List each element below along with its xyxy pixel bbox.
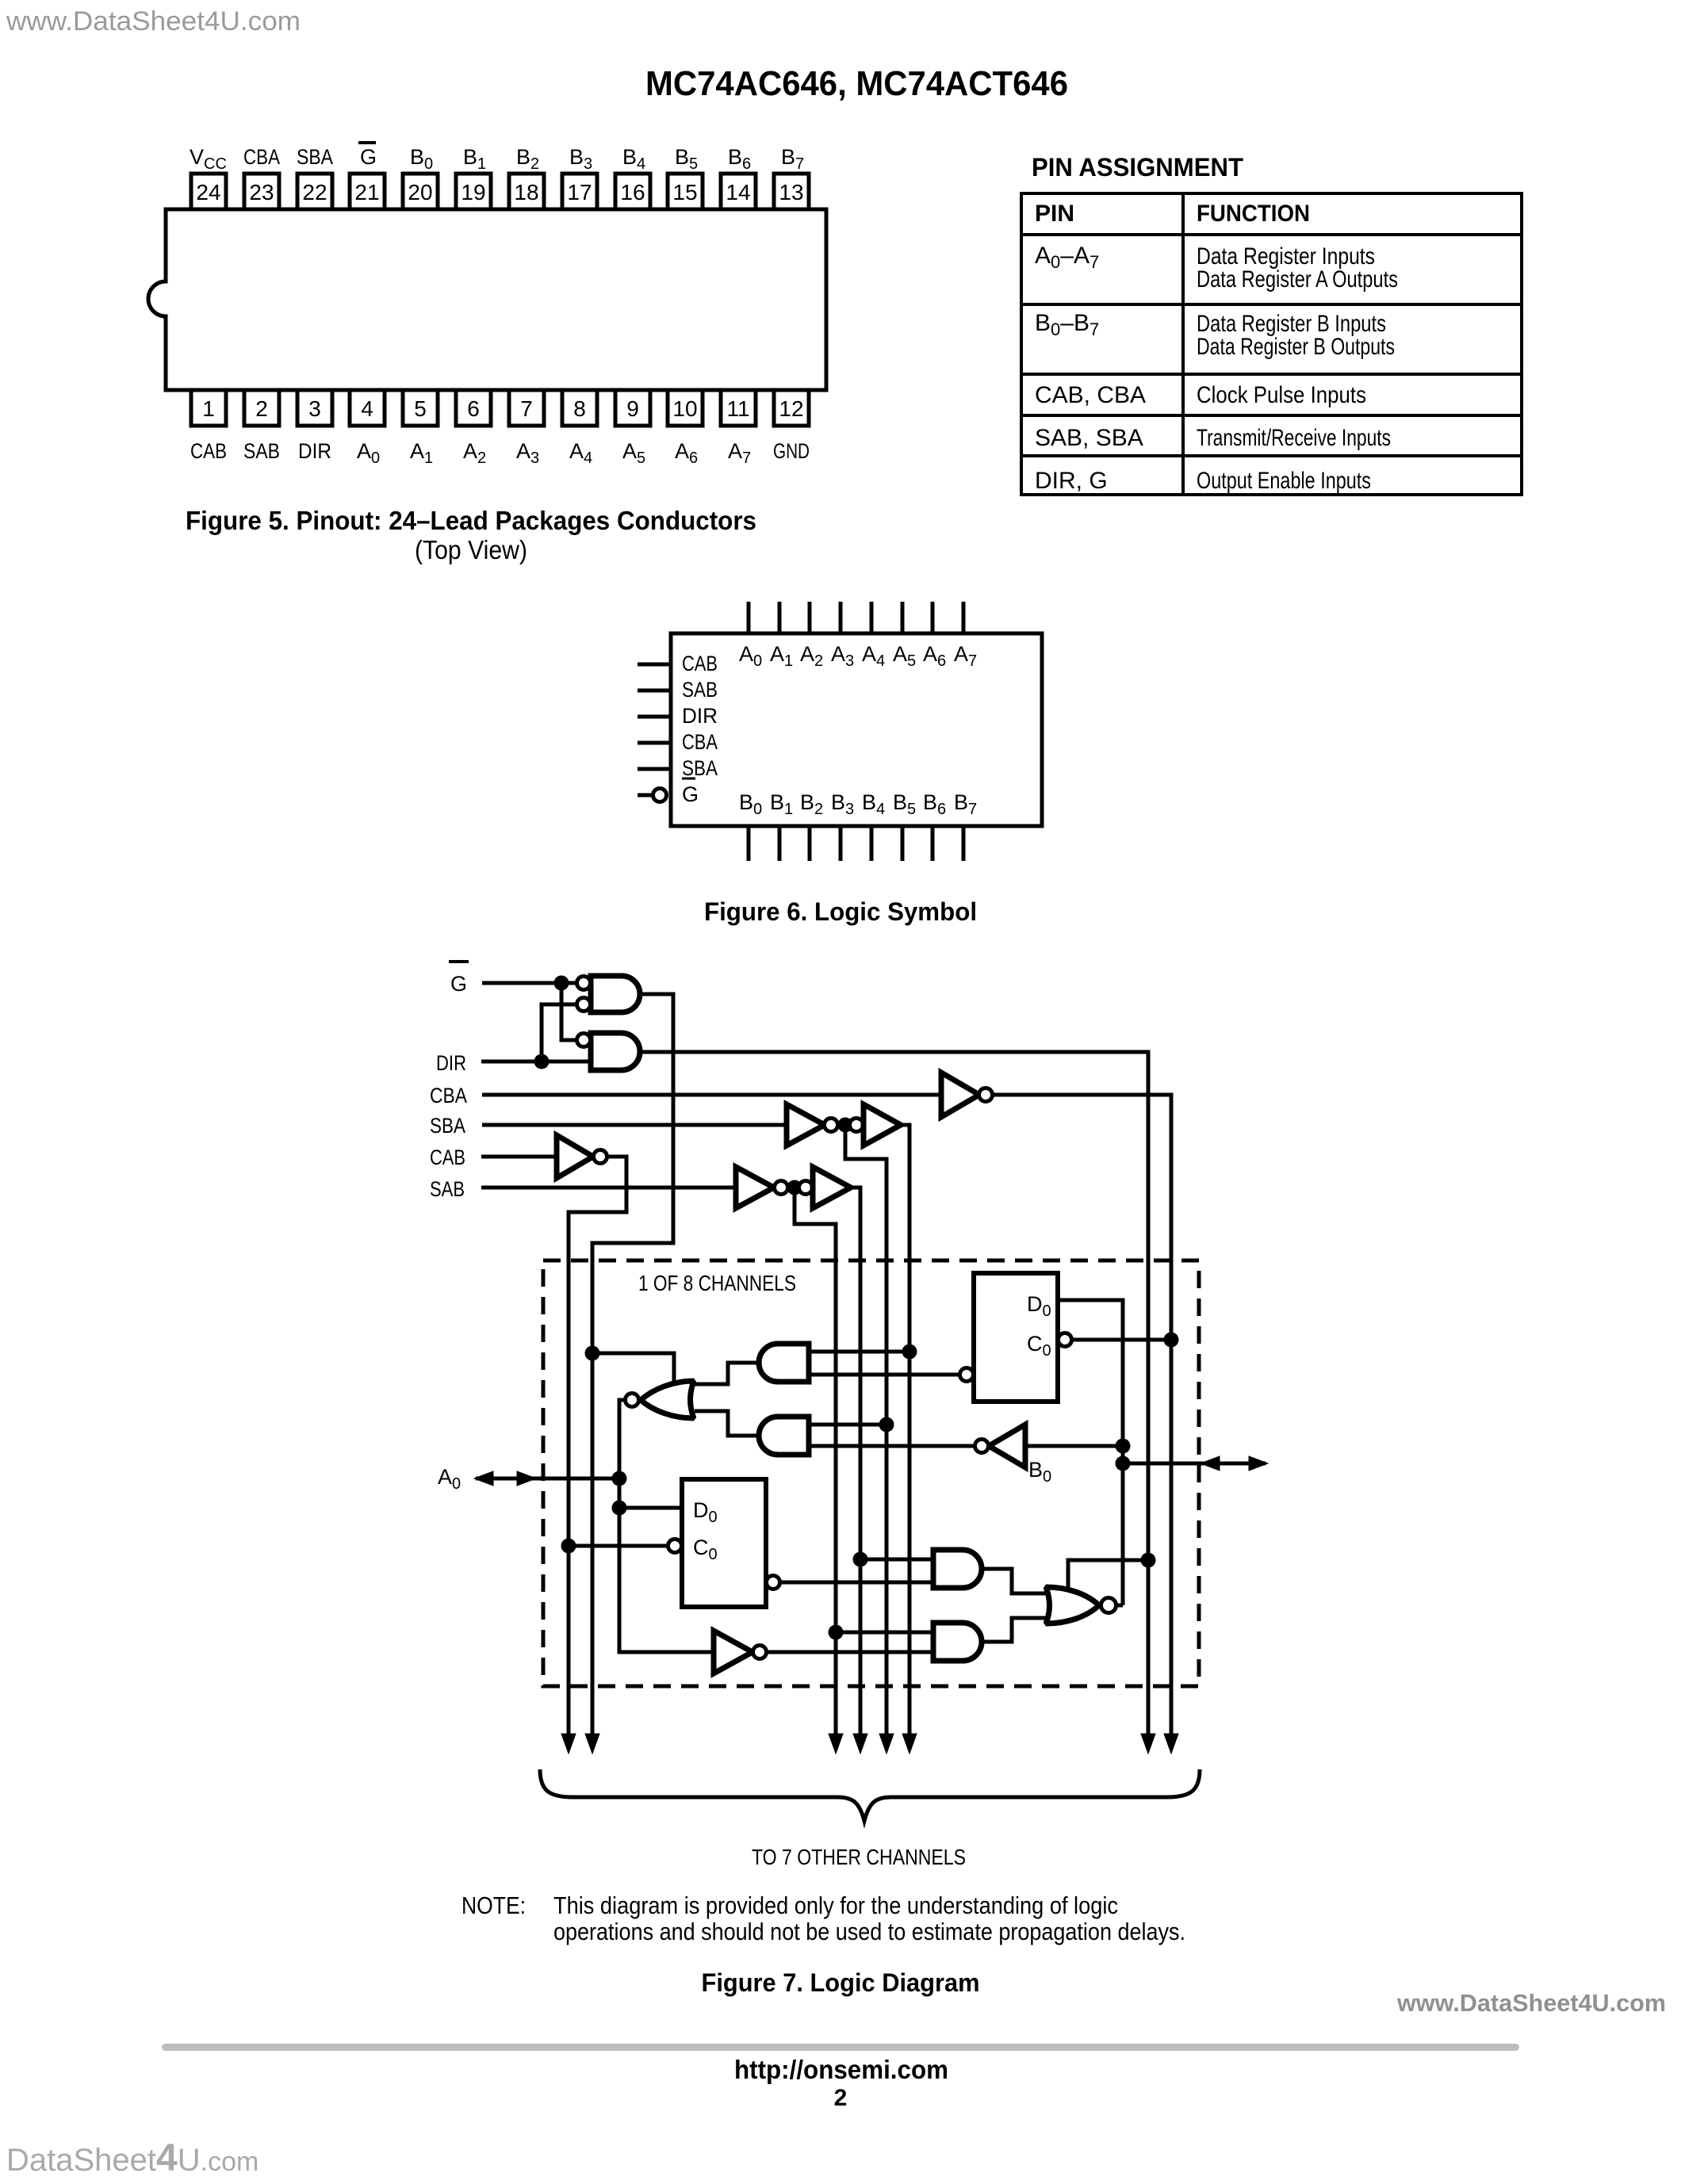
junction A0 line — [612, 1471, 627, 1486]
svg-text:20: 20 — [408, 180, 432, 205]
junction DIR line — [534, 1054, 550, 1069]
wire A0 to register D input — [619, 1506, 682, 1510]
pin A1 top lead — [778, 602, 782, 633]
svg-text:This diagram is provided only: This diagram is provided only for the un… — [553, 1891, 1118, 1919]
wire U12 bottom input from B0 inverter — [809, 1444, 975, 1448]
wire U13 output to NOR U17 — [982, 1569, 1048, 1593]
svg-text:7: 7 — [520, 396, 533, 421]
junction on SAB inverted-inverted line — [853, 1552, 868, 1567]
pin A2 top lead — [808, 602, 812, 633]
wire U4 output down to channel — [993, 1095, 1171, 1740]
arrowhead channel output x=1054 — [829, 1734, 843, 1754]
wire U11 top input from SBA tap — [809, 1350, 910, 1354]
svg-text:9: 9 — [626, 396, 639, 421]
svg-text:www.DataSheet4U.com: www.DataSheet4U.com — [1396, 1989, 1666, 2017]
svg-text:8: 8 — [573, 396, 586, 421]
svg-text:SBA: SBA — [682, 756, 718, 780]
svg-text:DIR: DIR — [436, 1051, 466, 1075]
pin CBA left lead — [638, 741, 671, 745]
wire U14 output to NOR U17 — [982, 1618, 1048, 1642]
inverter U5B (SBA second) — [850, 1119, 864, 1132]
wire U14 top input from SAB tap — [836, 1631, 933, 1635]
pin 20 box — [403, 174, 438, 209]
svg-text:11: 11 — [726, 396, 749, 421]
channel boundary (dashed box) — [543, 1260, 1199, 1686]
pin B6 bottom lead — [931, 826, 935, 861]
pin B0 bottom lead — [747, 826, 751, 861]
wire U7B output down to channel — [851, 1188, 860, 1740]
pin B5 bottom lead — [901, 826, 905, 861]
svg-text:Figure 7. Logic Diagram: Figure 7. Logic Diagram — [702, 1968, 980, 1997]
pin 4 box — [350, 390, 385, 426]
pin A7 top lead — [962, 602, 966, 633]
wire U15 clock from CBA tap — [1072, 1338, 1171, 1342]
svg-text:6: 6 — [467, 396, 480, 421]
pin A4 top lead — [870, 602, 874, 633]
wire U3 output to channel (B-side enable) — [640, 1052, 1148, 1740]
arrowhead channel output x=1147 — [902, 1734, 917, 1754]
junction on SBA inverted-inverted line — [902, 1344, 917, 1360]
wire between SBA inverters — [837, 1123, 850, 1127]
wire U6 output down to channel — [569, 1157, 626, 1740]
OR gate U8 (A output driver, points left) — [641, 1381, 694, 1418]
svg-text:(Top View): (Top View) — [415, 535, 527, 564]
pin 11 box — [721, 390, 756, 426]
svg-text:1 OF 8 CHANNELS: 1 OF 8 CHANNELS — [638, 1271, 796, 1295]
junction CAB clock tap — [561, 1539, 576, 1554]
pin 2 box — [244, 390, 279, 426]
pin 14 box — [721, 174, 756, 209]
junction B0 inverter tap — [1116, 1439, 1131, 1454]
arrowhead channel output x=717 — [561, 1734, 576, 1754]
arrowhead B0 right — [1249, 1456, 1268, 1471]
svg-text:TO 7 OTHER CHANNELS: TO 7 OTHER CHANNELS — [752, 1845, 966, 1869]
junction enable tap for OR U8 — [585, 1346, 600, 1361]
wire enable feedback to NOR U17 top — [1068, 1560, 1148, 1590]
svg-text:15: 15 — [672, 180, 697, 205]
junction SAB inverted tap — [787, 1180, 802, 1195]
svg-text:3: 3 — [308, 396, 321, 421]
wire CAB input — [481, 1155, 557, 1159]
svg-text:Data Register B Outputs: Data Register B Outputs — [1197, 334, 1395, 360]
svg-text:G: G — [682, 782, 699, 806]
pin 6 box — [456, 390, 491, 426]
svg-text:Clock Pulse Inputs: Clock Pulse Inputs — [1197, 382, 1366, 408]
svg-text:14: 14 — [726, 180, 750, 205]
pin A6 top lead — [931, 602, 935, 633]
pin 17 box — [562, 174, 597, 209]
pin SAB left lead — [638, 689, 671, 693]
pin G left lead — [638, 794, 652, 797]
junction on SAB inverted line — [829, 1625, 844, 1640]
svg-text:10: 10 — [672, 396, 697, 421]
wire SBA input — [482, 1123, 787, 1127]
pin 18 box — [509, 174, 544, 209]
wire U11 bottom input from B register Q — [809, 1373, 959, 1377]
wire SBA inverted tap down to channel — [845, 1125, 887, 1740]
arrowhead A0 left — [474, 1471, 493, 1486]
pin B1 bottom lead — [778, 826, 782, 861]
svg-text:GND: GND — [773, 439, 810, 463]
svg-text:Output Enable Inputs: Output Enable Inputs — [1197, 468, 1371, 494]
svg-text:G: G — [360, 145, 377, 169]
svg-text:SAB: SAB — [243, 439, 280, 463]
wire CAB clock to A register — [569, 1544, 668, 1548]
AND U12 (B0 pad readback, points left) — [759, 1417, 809, 1455]
table column divider — [1181, 193, 1185, 495]
footer separator bar — [162, 2044, 1519, 2051]
svg-text:DIR, G: DIR, G — [1035, 468, 1108, 494]
svg-text:22: 22 — [302, 180, 327, 205]
svg-text:CAB, CBA: CAB, CBA — [1035, 382, 1146, 408]
wire CBA input — [482, 1093, 941, 1097]
svg-text:G: G — [450, 972, 467, 996]
svg-text:NOTE:: NOTE: — [461, 1891, 526, 1919]
svg-text:23: 23 — [249, 180, 274, 205]
pin B4 bottom lead — [870, 826, 874, 861]
junction CBA clock tap — [1164, 1333, 1179, 1348]
svg-text:13: 13 — [779, 180, 803, 205]
wire G to lower NAND top input — [561, 983, 576, 1040]
NAND U2 (G/DIR enable, upper) — [591, 976, 640, 1012]
svg-text:PIN: PIN — [1035, 201, 1074, 227]
svg-text:CAB: CAB — [190, 439, 227, 463]
pin 21 box — [350, 174, 385, 209]
svg-text:DIR: DIR — [298, 439, 331, 463]
svg-text:CBA: CBA — [682, 730, 718, 754]
pin 22 box — [297, 174, 332, 209]
wire U12 output to OR U8 lower input — [695, 1411, 759, 1436]
junction D tap — [612, 1501, 627, 1516]
svg-text:24: 24 — [196, 180, 220, 205]
inverter U16 (B0 data for A side, points left) — [989, 1425, 1025, 1467]
arrowhead channel output x=1085 — [853, 1734, 867, 1754]
svg-text:SBA: SBA — [297, 145, 333, 169]
svg-text:CBA: CBA — [243, 145, 280, 169]
pin 9 box — [615, 390, 650, 426]
AND U13 (A register to B driver) — [933, 1550, 982, 1588]
register U10 (A data register) — [682, 1479, 766, 1607]
wire DIR to upper NAND lower input — [542, 1004, 576, 1061]
NOR gate U17 (B output driver) — [1046, 1587, 1099, 1624]
svg-text:4: 4 — [361, 396, 373, 421]
wire U2 output to channel (A-side enable) — [592, 994, 673, 1740]
inverter U6 (CAB clock) — [557, 1135, 593, 1178]
NAND U3 (G/DIR enable, lower) — [591, 1033, 640, 1070]
pin A0 top lead — [747, 602, 751, 633]
svg-text:18: 18 — [514, 180, 538, 205]
inverter U7A (SAB first) — [736, 1167, 774, 1208]
pin 1 box — [191, 390, 226, 426]
pin 24 box — [191, 174, 226, 209]
wire U13 top input from SAB tap — [860, 1558, 933, 1562]
table outer border — [1021, 193, 1522, 495]
junction enable feedback — [1141, 1553, 1156, 1568]
arrowhead channel output x=1477 — [1164, 1734, 1178, 1754]
svg-text:Figure 5. Pinout: 24–Lead Pack: Figure 5. Pinout: 24–Lead Packages Condu… — [186, 506, 756, 535]
wire SAB input — [481, 1186, 736, 1190]
svg-text:CAB: CAB — [682, 652, 718, 675]
logic symbol box U1 — [671, 633, 1042, 826]
svg-text:19: 19 — [461, 180, 485, 205]
svg-text:operations and should not be u: operations and should not be used to est… — [553, 1918, 1185, 1945]
svg-text:MC74AC646, MC74ACT646: MC74AC646, MC74ACT646 — [645, 64, 1068, 103]
pin 19 box — [456, 174, 491, 209]
wire B0 bidirectional pad line — [1123, 1462, 1266, 1466]
wire U17 output to B0 node — [1116, 1604, 1123, 1608]
wire U9 output to AND U14 — [767, 1650, 933, 1654]
svg-text:Figure 6. Logic Symbol: Figure 6. Logic Symbol — [704, 897, 977, 926]
inverter U4 (CBA clock) — [941, 1073, 979, 1117]
svg-text:SBA: SBA — [430, 1114, 465, 1138]
pin B2 bottom lead — [808, 826, 812, 861]
pin A5 top lead — [901, 602, 905, 633]
wire U15 D input from B0 node — [1058, 1300, 1123, 1605]
wire U12 top input from SBA tap — [809, 1423, 887, 1427]
pin B7 bottom lead — [962, 826, 966, 861]
pin 12 box — [774, 390, 809, 426]
wire G input — [482, 981, 576, 985]
pin 23 box — [244, 174, 279, 209]
svg-text:SAB, SBA: SAB, SBA — [1035, 425, 1143, 451]
pin 13 box — [774, 174, 809, 209]
pin B3 bottom lead — [839, 826, 843, 861]
brace to 7 other channels — [540, 1769, 1200, 1821]
arrowhead B0 left — [1201, 1456, 1220, 1471]
svg-text:SAB: SAB — [430, 1177, 465, 1201]
junction B0 line — [1116, 1456, 1131, 1471]
wire between SAB inverters — [787, 1186, 800, 1190]
pin 7 box — [509, 390, 544, 426]
wire U11 output to OR U8 upper input — [695, 1363, 759, 1384]
svg-text:CAB: CAB — [430, 1146, 465, 1169]
svg-text:http://onsemi.com: http://onsemi.com — [734, 2055, 948, 2084]
wire enable tap to OR U8 top — [592, 1353, 674, 1387]
svg-text:Data Register A Outputs: Data Register A Outputs — [1197, 266, 1398, 293]
arrowhead channel output x=1118 — [879, 1734, 894, 1754]
register U15 (B data register) — [974, 1273, 1058, 1402]
inverter U7B (SAB second) — [799, 1181, 813, 1195]
pin 16 box — [615, 174, 650, 209]
svg-text:12: 12 — [779, 396, 803, 421]
AND U14 (A0 pad to B driver) — [933, 1623, 982, 1661]
svg-text:Transmit/Receive Inputs: Transmit/Receive Inputs — [1197, 425, 1391, 451]
inverter U5A (SBA first) — [787, 1104, 825, 1146]
table row lines — [1021, 233, 1522, 236]
svg-text:FUNCTION: FUNCTION — [1197, 201, 1310, 227]
pin 5 box — [403, 390, 438, 426]
pin CAB left lead — [638, 663, 671, 667]
pin DIR left lead — [638, 715, 671, 719]
svg-text:PIN ASSIGNMENT: PIN ASSIGNMENT — [1032, 153, 1243, 182]
wire U5B output down to channel — [901, 1125, 910, 1740]
AND U11 (B-register readback, points left) — [759, 1344, 809, 1382]
arrowhead channel output x=747 — [585, 1734, 599, 1754]
svg-text:SAB: SAB — [682, 678, 718, 702]
arrowhead A0 right — [517, 1471, 536, 1486]
pin 8 box — [562, 390, 597, 426]
wire DIR input — [481, 1060, 591, 1064]
junction SBA inverted tap — [838, 1118, 853, 1133]
svg-text:16: 16 — [620, 180, 645, 205]
pin 10 box — [668, 390, 703, 426]
junction G line — [554, 976, 569, 991]
wire SAB inverted tap down to channel — [795, 1188, 836, 1740]
svg-text:2: 2 — [255, 396, 268, 421]
wire U8 output to A0 node and inverter U9 — [619, 1400, 714, 1652]
svg-text:2: 2 — [834, 2085, 848, 2111]
svg-text:1: 1 — [202, 396, 215, 421]
svg-text:21: 21 — [354, 180, 379, 205]
inverter U9 (A0 data for B side) — [714, 1631, 753, 1673]
svg-text:DIR: DIR — [682, 704, 718, 728]
IC package body (24-lead) — [148, 209, 826, 390]
svg-text:CBA: CBA — [430, 1084, 467, 1107]
pin 3 box — [297, 390, 332, 426]
pin 15 box — [668, 174, 703, 209]
wire U16 input from B0 node — [1025, 1444, 1123, 1448]
svg-text:17: 17 — [567, 180, 592, 205]
arrowhead channel output x=1448 — [1141, 1734, 1155, 1754]
junction on SBA inverted line — [879, 1417, 894, 1432]
svg-text:www.DataSheet4U.com: www.DataSheet4U.com — [6, 6, 301, 36]
pin A3 top lead — [839, 602, 843, 633]
svg-text:5: 5 — [414, 396, 427, 421]
pin SBA left lead — [638, 767, 671, 771]
wire A0 bidirectional pad line — [476, 1477, 619, 1481]
wire U10 Q output to AND U13 — [780, 1581, 933, 1585]
